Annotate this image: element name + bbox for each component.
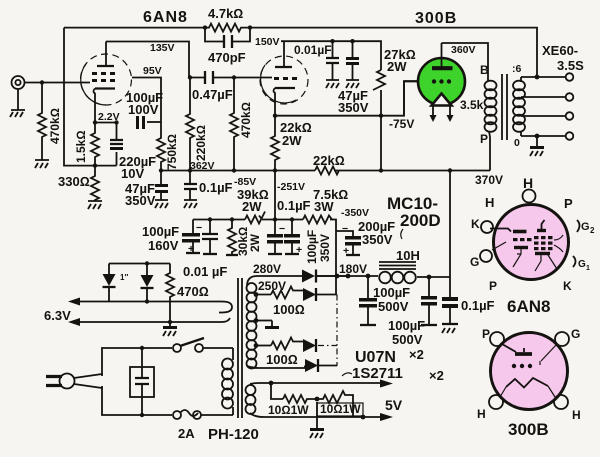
capacitor C-470pF	[205, 28, 250, 42]
tube V2 filament	[432, 94, 452, 106]
wire rectifier output rail	[316, 276, 450, 277]
svg-text:G: G	[581, 221, 590, 233]
svg-text:3W: 3W	[314, 199, 334, 214]
svg-text:U07N: U07N	[355, 349, 396, 366]
wire input grid line	[25, 82, 91, 84]
OPT secondary winding	[513, 77, 525, 136]
PWR HV winding	[247, 283, 257, 369]
resistor R-10ohm b	[317, 391, 353, 417]
svg-text:330Ω: 330Ω	[58, 174, 90, 189]
capacitor C-0.1uF rail	[189, 171, 191, 185]
ground 47u	[346, 80, 359, 88]
svg-text:P: P	[482, 327, 490, 341]
wire 5V bottom tap	[250, 413, 388, 417]
capacitor C-100uF500V a	[367, 276, 369, 298]
svg-text:100Ω: 100Ω	[273, 302, 305, 317]
wire 150V rail	[281, 41, 381, 70]
ground secondary	[536, 136, 538, 146]
node dot 4.7k right	[248, 25, 252, 29]
resistor R-4.7k	[205, 24, 250, 32]
capacitor C-100uF500V b	[428, 277, 430, 296]
node 220k bottom	[188, 168, 192, 172]
svg-text:280V: 280V	[253, 262, 281, 276]
pin circle P	[490, 332, 504, 346]
svg-text:H: H	[523, 175, 533, 191]
choke L-10H	[379, 272, 416, 284]
arrow heater bottom	[68, 318, 80, 326]
fuse F1 2A	[173, 411, 181, 419]
wire 360V plate line	[442, 43, 489, 77]
svg-text:362V: 362V	[190, 160, 215, 172]
resistor R-100a	[271, 287, 303, 299]
resistor R-330	[91, 166, 99, 201]
node bias 274	[273, 217, 277, 221]
arrow 5V top	[380, 380, 393, 388]
6AN8 socket triode internals	[490, 229, 511, 232]
tube V2 grid dots	[432, 79, 451, 83]
tube V1b 6AN8 triode dashed envelope	[260, 56, 308, 104]
svg-text:2W: 2W	[282, 133, 302, 148]
node choke out	[427, 275, 432, 280]
wire secondary tap3	[521, 115, 566, 117]
wire 22k2W to bias rail	[274, 171, 276, 232]
node bias left	[208, 217, 212, 221]
svg-text:160V: 160V	[148, 238, 179, 253]
pin circle G left	[480, 250, 492, 262]
node 0.01u cap	[330, 39, 334, 43]
wire secondary tap4	[521, 135, 566, 137]
wire secondary tap1	[521, 76, 566, 78]
tube V1b cathode	[275, 87, 295, 89]
node 22k junction	[273, 168, 277, 172]
svg-text:470kΩ: 470kΩ	[239, 102, 253, 138]
node 250V tap	[254, 292, 259, 297]
tube V1b plate	[275, 66, 292, 68]
capacitor C-100uF350V bias	[291, 220, 293, 235]
svg-text:G: G	[578, 259, 586, 270]
wire cathode feedback bus	[95, 165, 117, 167]
svg-text:4.7kΩ: 4.7kΩ	[208, 6, 243, 21]
winding 6.3V heater	[77, 302, 232, 323]
input jack J1	[12, 76, 25, 89]
wire -75V rail	[275, 81, 418, 116]
svg-text:6AN8: 6AN8	[507, 297, 550, 316]
svg-text:2: 2	[590, 226, 595, 235]
wire left feedback vertical	[64, 28, 95, 166]
wire heater bias top	[109, 263, 170, 265]
node HV ct	[254, 318, 259, 323]
svg-text:P: P	[480, 132, 488, 146]
tube V2 plate	[432, 66, 453, 70]
capacitor C-0.01uF bias	[209, 220, 211, 235]
node 30k top	[230, 217, 234, 221]
tube V2 300B envelope	[418, 58, 465, 105]
capacitor C-200uF 350V	[336, 231, 353, 236]
PWR primary winding	[222, 348, 233, 415]
resistor R-22k horizontal	[315, 167, 339, 175]
svg-text:0.1µF: 0.1µF	[277, 198, 311, 213]
svg-text:H: H	[477, 407, 486, 421]
svg-text:XE60-: XE60-	[542, 43, 578, 58]
svg-text:370V: 370V	[475, 173, 503, 187]
node filter cap bottom	[140, 413, 144, 417]
svg-text:10H: 10H	[396, 248, 420, 263]
wire 280V tap	[247, 276, 302, 286]
svg-text:0.01 µF: 0.01 µF	[183, 264, 227, 279]
annotation U07N dash-dot	[336, 295, 338, 367]
svg-text:H: H	[572, 408, 581, 422]
svg-text:180V: 180V	[339, 262, 367, 276]
svg-text:K: K	[471, 217, 480, 231]
wire HV bottom tap	[247, 366, 305, 369]
svg-text:470pF: 470pF	[208, 50, 246, 65]
ground 0.1u rail	[184, 200, 197, 208]
svg-text:10Ω1W: 10Ω1W	[320, 402, 361, 416]
node rect bus top	[335, 274, 340, 279]
ground HV ct	[271, 321, 273, 327]
tube V1a cathode	[95, 87, 115, 89]
svg-text:G: G	[571, 327, 580, 341]
node cathode left	[93, 120, 97, 124]
node 2nd lower tap	[254, 343, 259, 348]
wire jack ground stub	[17, 89, 19, 110]
svg-text:−: −	[342, 223, 348, 235]
wire 250V tap	[254, 294, 271, 296]
svg-text:-75V: -75V	[389, 117, 414, 131]
pin circle H2	[554, 395, 568, 409]
tube V2 filament pins with arrows	[433, 106, 450, 116]
svg-text:150V: 150V	[255, 36, 280, 48]
svg-text:100µF: 100µF	[142, 224, 179, 239]
tube V1a plate	[97, 65, 114, 67]
pin circle H top	[523, 190, 536, 203]
svg-text:2W: 2W	[242, 199, 262, 214]
ground 330	[88, 201, 102, 209]
resistor R-470k grid2	[230, 78, 238, 171]
pin circle K left	[481, 221, 493, 233]
socket 6AN8 pink circle	[494, 205, 569, 280]
node 370V vertical	[448, 168, 452, 172]
svg-text:H: H	[485, 195, 494, 210]
diode D-rect1	[302, 270, 315, 283]
svg-text::6: :6	[512, 63, 521, 75]
node bias diode2	[145, 261, 149, 265]
capacitor C-0.1uF coupling bias	[274, 231, 276, 234]
capacitor C-47uF 350V	[352, 41, 354, 58]
diode D-rect3	[303, 339, 316, 352]
svg-text:200D: 200D	[400, 211, 441, 230]
svg-text:750kΩ: 750kΩ	[165, 134, 179, 170]
wire secondary tap2	[521, 96, 566, 98]
300B socket internals	[502, 344, 516, 352]
svg-text:100µF: 100µF	[305, 230, 319, 264]
svg-text:6.3V: 6.3V	[44, 308, 71, 323]
node heater d2	[145, 299, 149, 303]
svg-text:+: +	[343, 245, 349, 257]
svg-text:0.1µF: 0.1µF	[461, 298, 495, 313]
tube V1a grids (dot rows)	[92, 72, 115, 82]
capacitor C-47uF 350V rail	[160, 171, 162, 185]
svg-text:P: P	[564, 196, 573, 211]
ground 470k	[35, 160, 49, 168]
diode D-rect4	[305, 359, 318, 372]
wire OPT P to 370V rail	[489, 137, 491, 171]
capacitor C-100uF screen bypass	[147, 121, 161, 123]
resistor R-100b	[271, 338, 303, 350]
svg-text:470Ω: 470Ω	[177, 284, 209, 299]
svg-text:1: 1	[586, 265, 590, 272]
node between 10ohm	[315, 397, 320, 402]
svg-text:1″: 1″	[120, 273, 128, 282]
ground 0.01u	[326, 80, 339, 88]
svg-text:350V: 350V	[125, 193, 156, 208]
svg-text:220kΩ: 220kΩ	[194, 125, 208, 161]
capacitor C-line-filter boxed	[141, 348, 143, 415]
svg-text:K: K	[563, 279, 572, 293]
arrow heater top	[68, 298, 80, 306]
terminal 1	[566, 73, 574, 81]
svg-text:0: 0	[514, 137, 520, 149]
pin arc G2 right	[577, 220, 580, 232]
wire to primary	[201, 348, 233, 415]
node dot 4.7k left	[203, 25, 207, 29]
svg-text:100Ω: 100Ω	[266, 352, 298, 367]
svg-text:2.2V: 2.2V	[98, 111, 120, 123]
svg-text:G: G	[470, 255, 479, 269]
node fb tap	[535, 75, 540, 80]
svg-text:×2: ×2	[409, 347, 424, 362]
resistor R-7.5k 3W horizontal	[303, 216, 332, 224]
wire plate to 135V line	[106, 42, 189, 78]
node cathode fb	[273, 114, 277, 118]
node grid2/470k	[232, 75, 236, 79]
svg-text:0.1µF: 0.1µF	[199, 180, 233, 195]
wire mains bottom	[102, 387, 172, 415]
OPT primary winding	[485, 77, 497, 137]
wire -75V to 370V rail vertical	[380, 116, 382, 171]
svg-text:100µF: 100µF	[373, 285, 410, 300]
svg-text:350V: 350V	[318, 234, 332, 262]
tube V1a 6AN8 pentode dashed envelope	[81, 54, 132, 105]
winding 5V	[246, 385, 256, 414]
node 27k bottom	[379, 114, 383, 118]
svg-text:P: P	[489, 279, 497, 293]
svg-text:−: −	[279, 223, 285, 235]
svg-text:500V: 500V	[378, 299, 409, 314]
resistor R-27k	[373, 70, 385, 90]
pin arc G1 right	[573, 256, 576, 267]
node 750k bottom	[159, 168, 163, 172]
label 10ohm1W b boxed	[317, 403, 363, 416]
svg-text:10Ω1W: 10Ω1W	[268, 403, 309, 417]
svg-text:3.5k: 3.5k	[460, 98, 484, 112]
wire -350V vertical	[335, 227, 337, 295]
node 180V	[346, 274, 351, 279]
node heater 470	[168, 320, 172, 324]
diode D-bias2	[146, 264, 148, 300]
wire 370V vertical to choke out	[449, 171, 451, 278]
capacitor C-0.47uF coupling	[190, 77, 272, 79]
svg-text:300B: 300B	[508, 420, 549, 439]
wire top feedback line	[64, 28, 537, 76]
terminal 4	[566, 132, 574, 140]
svg-text:2W: 2W	[248, 233, 262, 252]
wire 5V top tap	[250, 383, 388, 384]
ground jack	[10, 110, 25, 117]
svg-text:500V: 500V	[392, 332, 423, 347]
capacitor C-0.01uF rail	[332, 41, 334, 58]
pin circle H1	[489, 395, 503, 409]
svg-text:1.5kΩ: 1.5kΩ	[74, 130, 88, 163]
OPT core	[502, 74, 507, 140]
node cathode right	[114, 120, 118, 124]
resistor R-39k 2W horizontal	[245, 212, 265, 224]
svg-text:+: +	[296, 244, 302, 256]
capacitor C-0.1uF out	[449, 277, 451, 297]
arrow 5V bottom	[380, 413, 393, 421]
resistor R-220k	[186, 78, 194, 171]
wire lower tap	[256, 345, 271, 347]
svg-text:135V: 135V	[150, 42, 175, 54]
wire 362/370V rail	[161, 170, 490, 172]
svg-text:350V: 350V	[362, 232, 393, 247]
pin circle G	[555, 332, 569, 346]
node fb	[93, 163, 97, 167]
resistor R-22k 2W vertical	[271, 116, 279, 171]
annotation squiggle	[342, 373, 352, 376]
node gnd tap	[535, 134, 540, 139]
6AN8 socket pentode internals	[537, 229, 546, 232]
node 0.47u left	[188, 75, 192, 79]
svg-text:6AN8: 6AN8	[143, 9, 188, 26]
resistor R-470k input	[38, 83, 46, 161]
tube V1b grid dots	[274, 77, 297, 80]
wire screen 95V line	[132, 78, 161, 123]
svg-text:−: −	[196, 222, 202, 234]
node 47u cap	[350, 39, 354, 43]
node cap1	[366, 274, 371, 279]
svg-text:2W: 2W	[387, 59, 407, 74]
ground 47u rail	[155, 200, 168, 208]
PWR core	[238, 278, 242, 418]
svg-text:+: +	[188, 243, 194, 255]
wire HV center tap	[256, 320, 272, 322]
resistor R-30k 2W vertical	[228, 220, 236, 256]
node filter cap top	[140, 346, 144, 350]
svg-text:360V: 360V	[451, 44, 476, 56]
diode D-bias1	[108, 264, 110, 302]
wire 300B grid	[403, 115, 405, 117]
terminal 3	[566, 112, 574, 120]
switch SW1	[173, 344, 181, 352]
svg-text:5V: 5V	[385, 397, 403, 413]
svg-text:10V: 10V	[121, 166, 144, 181]
svg-text:B: B	[480, 63, 489, 77]
svg-text:-251V: -251V	[277, 181, 305, 193]
annotation arrow MC10	[401, 229, 403, 239]
svg-text:-350V: -350V	[341, 207, 369, 219]
svg-text:22kΩ: 22kΩ	[313, 153, 345, 168]
svg-text:300B: 300B	[415, 10, 457, 27]
svg-text:350V: 350V	[338, 100, 369, 115]
terminal 2	[566, 93, 574, 101]
svg-text:×2: ×2	[429, 368, 444, 383]
wire cathode node	[95, 122, 117, 124]
node 5V bottom join	[361, 415, 366, 420]
wire -85V bias rail	[207, 220, 336, 228]
wire mains top	[102, 348, 172, 375]
svg-text:0.47µF: 0.47µF	[192, 87, 233, 102]
plug AC	[60, 374, 75, 389]
svg-text:470kΩ: 470kΩ	[48, 108, 62, 144]
svg-text:95V: 95V	[143, 65, 162, 77]
resistor R-750k	[157, 122, 165, 170]
node 470k bottom	[232, 168, 236, 172]
svg-text:3.5S: 3.5S	[557, 58, 584, 73]
svg-text:PH-120: PH-120	[208, 426, 259, 443]
ground 470	[169, 322, 171, 326]
capacitor C-100uF160V left	[193, 220, 207, 234]
svg-text:0.01µF: 0.01µF	[294, 43, 332, 57]
svg-text:100V: 100V	[128, 102, 159, 117]
node input/470k	[40, 80, 44, 84]
wire down to resistors	[271, 383, 283, 399]
node 100u350 top	[290, 217, 294, 221]
resistor R-470	[166, 264, 174, 323]
svg-text:100µF: 100µF	[388, 318, 425, 333]
svg-text:1S2711: 1S2711	[352, 365, 403, 382]
node 5V junction	[269, 381, 274, 386]
tube V2 grid lead	[404, 82, 418, 116]
resistor R-10ohm a	[283, 395, 317, 403]
socket 300B pink circle	[491, 333, 568, 410]
ground 5V mid	[316, 402, 318, 428]
capacitor C-220uF cathode bypass	[116, 123, 118, 166]
resistor R-1.5k cathode	[91, 123, 99, 166]
svg-text:2A: 2A	[178, 426, 195, 441]
diode D-rect2	[303, 288, 316, 301]
